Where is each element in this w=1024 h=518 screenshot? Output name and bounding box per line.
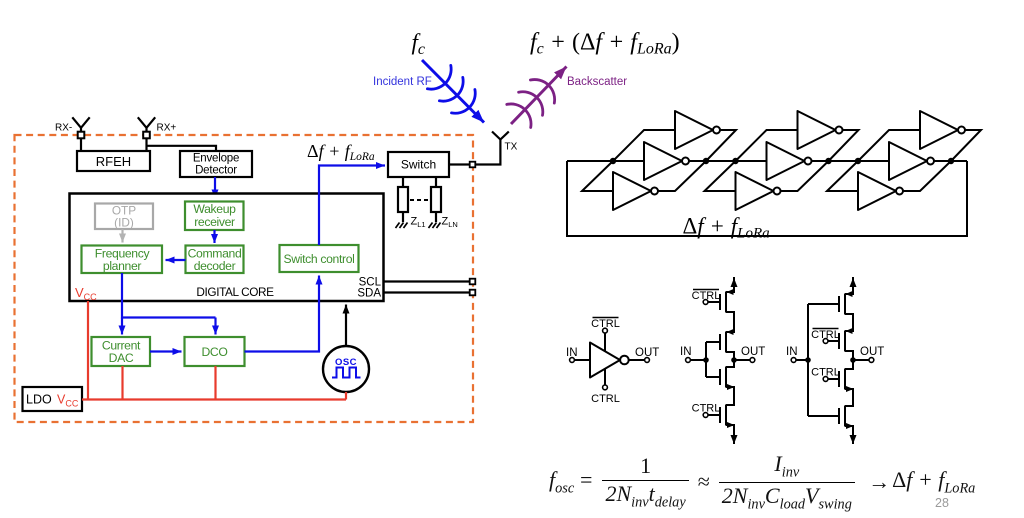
OSC oscillator (323, 346, 369, 392)
stage 2 top branch wires (736, 130, 859, 161)
impedance Z_L1 (398, 187, 408, 212)
command decoder block (186, 246, 244, 274)
backscatter wavefront arcs (507, 80, 555, 128)
U2 M4 (CTRL NMOS) gate wire (708, 414, 720, 416)
switch block (388, 152, 449, 177)
page number (935, 496, 949, 510)
switch control block (280, 245, 359, 272)
wire switch to Z_LN (435, 177, 437, 187)
wire OSC to digital core (345, 305, 347, 347)
wire command decoder to frequency planner (166, 259, 186, 261)
U2 M4 (CTRL NMOS) NMOS arrow (727, 422, 735, 428)
U3 M4 (IN NMOS) NMOS arrow (846, 423, 854, 429)
wire frequency planner to current DAC and DCO (122, 273, 216, 318)
current DAC block (92, 337, 151, 366)
U1 IN terminal (570, 358, 575, 363)
digital core block (70, 194, 384, 302)
U2 OUT junction (731, 357, 737, 363)
wire Z_LN to ground (435, 212, 437, 222)
svg-text:IN: IN (680, 346, 692, 358)
U3 M3 (CTRL NMOS) NMOS arrow (846, 386, 854, 392)
RFEH block (77, 151, 150, 171)
U2 M4 (CTRL NMOS) gate bar (719, 407, 721, 423)
ground (Z_L1) (396, 223, 408, 229)
inverter stage 3 top (920, 111, 965, 149)
wire switch to TX pad (449, 163, 470, 165)
SCL wire (384, 280, 471, 282)
orange dashed system boundary (15, 135, 474, 422)
svg-text:DAC: DAC (109, 351, 134, 365)
U2 CTRLb overline (693, 289, 719, 291)
svg-text:Incident RF: Incident RF (373, 76, 432, 88)
svg-text:CTRL: CTRL (591, 318, 620, 330)
U2 M2 (IN PMOS) gate bar (719, 334, 721, 350)
wire switch control to switch (319, 166, 385, 246)
U3 OUT terminal (869, 358, 874, 363)
antenna RX- (72, 117, 89, 138)
U3 OUT junction (850, 357, 856, 363)
U2 M2 (IN PMOS) PMOS arrow (727, 329, 734, 335)
arrow into current DAC (121, 318, 123, 335)
U3 CTRLb terminal (823, 339, 828, 344)
U3 IN junction (805, 357, 811, 363)
U2 M3 (IN NMOS) gate bar (719, 369, 721, 385)
U3 M2 (CTRLb PMOS) channel (845, 331, 853, 352)
inverter stage 3 bottom (858, 172, 903, 210)
antenna RX+ (138, 117, 155, 138)
wire RX- to RFEH (80, 138, 82, 151)
svg-text:TX: TX (505, 142, 518, 153)
svg-text:fc + (Δf + fLoRa): fc + (Δf + fLoRa) (530, 30, 680, 58)
U1 triangle (590, 343, 620, 378)
red wire to DCO (214, 366, 216, 400)
U3 M4 (IN NMOS) gate bar (838, 408, 840, 424)
U3 rail (845, 277, 853, 442)
wire wakeup receiver to command decoder (213, 230, 215, 243)
gray arrow OTP to frequency planner (121, 229, 123, 243)
main ring wire (567, 160, 967, 162)
svg-text:IN: IN (786, 346, 798, 358)
inverter stage 2 middle (767, 142, 812, 180)
svg-text:decoder: decoder (194, 259, 236, 273)
U2 M2 (IN PMOS) channel (726, 332, 734, 353)
stage 1 top branch wires (613, 130, 736, 161)
inverter stage 2 bottom (736, 172, 781, 210)
U3 M3 (CTRL NMOS) channel (845, 369, 853, 390)
U2 M3 (IN NMOS) gate wire (706, 376, 720, 378)
LDO block (23, 387, 83, 411)
U1 OUT terminal (645, 358, 650, 363)
ground (Z_LN) (429, 223, 441, 229)
U3 M1 (IN PMOS) PMOS arrow (846, 291, 853, 297)
ring stage 3 input node (855, 158, 861, 164)
svg-text:Δf + fLoRa: Δf + fLoRa (307, 141, 375, 163)
U2 CTRL terminal (703, 413, 708, 418)
U2 M4 (CTRL NMOS) channel (726, 405, 734, 426)
inverter stage 2 top (798, 111, 843, 149)
wire current DAC to DCO (150, 350, 182, 352)
stage 1 bottom branch wires (582, 161, 706, 191)
incident RF arrow (422, 60, 484, 123)
svg-text:CTRL: CTRL (811, 329, 840, 341)
OTP (ID) block (95, 204, 153, 230)
frequency planner block (82, 246, 163, 274)
TX pad on boundary (470, 162, 476, 168)
U3 M2 (CTRLb PMOS) gate wire (828, 340, 839, 342)
svg-text:Wakeup: Wakeup (193, 202, 236, 216)
U2 M1 (CTRLb PMOS) gate wire (708, 301, 720, 303)
svg-text:Δf + fLoRa: Δf + fLoRa (683, 214, 770, 242)
U1 CTRLb wire (604, 333, 606, 352)
wire DCO to switch control (245, 276, 320, 352)
stage 3 output node (948, 158, 954, 164)
ring stage 2 input node (732, 158, 738, 164)
incident RF wavefront arcs (427, 65, 475, 113)
U2 rail (726, 277, 734, 442)
U2 M3 (IN NMOS) NMOS arrow (727, 384, 735, 390)
U2 IN terminal (686, 358, 691, 363)
stage 1 output node (703, 158, 709, 164)
U3 GND arrow (852, 432, 854, 444)
wire RX+ to envelope detector (147, 146, 217, 151)
U2 M1 (CTRLb PMOS) PMOS arrow (727, 289, 734, 295)
U2 M3 (IN NMOS) channel (726, 367, 734, 388)
U3 M3 (CTRL NMOS) gate wire (828, 378, 839, 380)
U3 M3 (CTRL NMOS) gate bar (838, 371, 840, 387)
SCL pad (470, 279, 476, 285)
U2 CTRLb terminal (703, 300, 708, 305)
inverter stage 3 middle (889, 142, 934, 180)
U1 CTRL wire (604, 368, 606, 385)
wire switch to Z_L1 (402, 177, 404, 187)
svg-text:DIGITAL CORE: DIGITAL CORE (196, 285, 274, 299)
inverter stage 1 bottom (613, 172, 658, 210)
dashed link between loads (410, 199, 429, 201)
svg-text:fc: fc (412, 30, 426, 59)
formula f_osc (549, 452, 975, 512)
inverter stage 1 top (675, 111, 720, 149)
SDA pad (470, 290, 476, 296)
U2 OUT terminal (750, 358, 755, 363)
svg-text:SDA: SDA (357, 288, 381, 300)
U2 VDD arrow (733, 278, 735, 290)
svg-text:ZLN: ZLN (442, 216, 458, 230)
svg-text:Switch: Switch (401, 158, 436, 172)
svg-text:OUT: OUT (741, 346, 765, 358)
U3 M4 (IN NMOS) gate wire (808, 415, 839, 417)
U1 OUT wire (629, 359, 645, 361)
wakeup receiver block (185, 202, 244, 231)
U3 IN wire (796, 304, 808, 416)
U2 M1 (CTRLb PMOS) gate bar (719, 294, 721, 310)
U3 M1 (IN PMOS) channel (845, 294, 853, 315)
U3 M1 (IN PMOS) gate wire (808, 303, 839, 305)
svg-text:CTRL: CTRL (811, 367, 840, 379)
U3 VDD arrow (852, 278, 854, 290)
U3 CTRLb overline (813, 328, 839, 330)
svg-text:Detector: Detector (195, 165, 237, 177)
U1 CTRL terminal (603, 385, 608, 390)
stage 3 bottom branch wires (827, 161, 951, 191)
svg-text:CTRL: CTRL (692, 403, 721, 415)
U3 M2 (CTRLb PMOS) PMOS arrow (846, 328, 853, 334)
ring stage 1 input node (610, 158, 616, 164)
svg-text:CTRL: CTRL (692, 290, 721, 302)
U1 IN wire (574, 359, 590, 361)
tri-state inverter symbol U1 (574, 333, 644, 385)
red wire to current DAC (121, 366, 123, 400)
U1 output bubble (620, 356, 629, 365)
stage 2 output node (825, 158, 831, 164)
svg-text:RFEH: RFEH (96, 154, 131, 169)
U3 OUT wire (853, 359, 869, 361)
U2 IN junction (703, 357, 709, 363)
svg-text:OSC: OSC (335, 357, 357, 368)
svg-text:OUT: OUT (635, 347, 659, 359)
U3 M2 (CTRLb PMOS) gate bar (838, 333, 840, 349)
wire envelope detector to wakeup receiver (214, 177, 216, 199)
arrow into DCO (214, 318, 216, 335)
U2 M2 (IN PMOS) gate wire (706, 341, 720, 343)
wire pad to TX antenna (475, 139, 500, 165)
svg-text:OUT: OUT (860, 346, 884, 358)
U1 CTRLb overline (593, 317, 619, 319)
stage 3 top branch wires (858, 130, 981, 161)
wire Z_L1 to ground (402, 212, 404, 222)
svg-text:ZL1: ZL1 (411, 216, 426, 230)
U3 CTRL terminal (823, 377, 828, 382)
U3 M4 (IN NMOS) channel (845, 406, 853, 427)
svg-text:receiver: receiver (194, 215, 235, 229)
inverter stage 1 middle (644, 142, 689, 180)
DCO block (185, 337, 245, 366)
svg-text:IN: IN (566, 347, 578, 359)
svg-text:LDO: LDO (26, 393, 52, 407)
U2 M1 (CTRLb PMOS) channel (726, 292, 734, 313)
SDA wire (384, 291, 471, 293)
red wire to OSC (345, 392, 347, 400)
svg-text:Switch control: Switch control (284, 252, 355, 266)
envelope detector block (180, 151, 252, 177)
svg-text:RX-: RX- (55, 123, 72, 134)
svg-text:Envelope: Envelope (193, 153, 239, 165)
svg-text:(ID): (ID) (114, 216, 134, 230)
U2 GND arrow (733, 432, 735, 444)
svg-text:Backscatter: Backscatter (567, 76, 627, 88)
U2 IN wire (690, 342, 706, 377)
U2 OUT wire (734, 359, 750, 361)
antenna TX (492, 132, 509, 140)
red supply rail from LDO (82, 398, 346, 400)
backscatter arrow (511, 67, 567, 125)
U3 IN terminal (791, 358, 796, 363)
U3 M1 (IN PMOS) gate bar (838, 296, 840, 312)
svg-text:planner: planner (103, 259, 141, 273)
feedback loop wire (567, 161, 967, 236)
svg-text:DCO: DCO (201, 345, 227, 359)
U1 CTRLb terminal (603, 328, 608, 333)
wire RX+ to RFEH (145, 138, 147, 151)
svg-text:CTRL: CTRL (591, 393, 620, 405)
red wire to digital core Vcc (87, 301, 89, 400)
impedance Z_LN (431, 187, 441, 212)
stage 2 bottom branch wires (705, 161, 829, 191)
svg-text:RX+: RX+ (157, 123, 177, 134)
